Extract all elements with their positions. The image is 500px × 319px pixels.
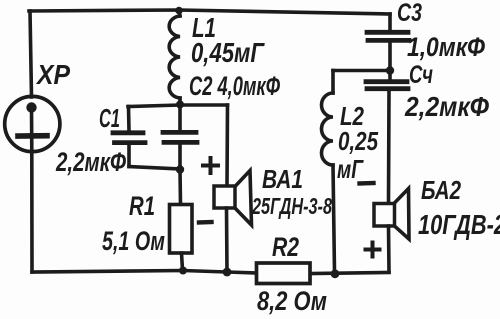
resistor R1 (170, 170, 193, 271)
speaker BA1 (214, 105, 252, 272)
wire node B rail (129, 167, 180, 170)
wire left vertical from top bus to XP (30, 11, 32, 97)
minus sign BA1 (199, 220, 212, 225)
wire bottom bus right segment (310, 273, 389, 274)
speaker BA2 (374, 189, 409, 273)
connector XP (5, 96, 60, 151)
capacitor C3 (367, 14, 409, 80)
svg-text:25ГДН-3-8: 25ГДН-3-8 (251, 193, 332, 219)
svg-text:0,25: 0,25 (338, 126, 378, 156)
inductor L2 (322, 71, 335, 273)
junction top of L1 (175, 7, 183, 15)
capacitor C4 (366, 82, 408, 203)
svg-text:0,45мГ: 0,45мГ (191, 37, 265, 68)
svg-text:5,1 Ом: 5,1 Ом (102, 226, 165, 256)
resistor R2 (257, 263, 311, 284)
wire top bus (29, 10, 390, 14)
capacitor C2 (163, 105, 197, 169)
svg-text:ВА1: ВА1 (262, 164, 303, 194)
plus sign BA1 (203, 158, 218, 173)
svg-text:Сч: Сч (409, 61, 433, 89)
wire XP to bottom bus (30, 152, 34, 273)
svg-text:2,2мкФ: 2,2мкФ (55, 147, 126, 177)
junction node A (176, 101, 184, 109)
wire node A rail (128, 105, 228, 107)
svg-text:R2: R2 (272, 232, 299, 262)
svg-text:10ГДВ-2: 10ГДВ-2 (418, 209, 500, 240)
svg-text:R1: R1 (129, 191, 155, 221)
junction node B (176, 165, 184, 173)
svg-text:С2 4,0мкФ: С2 4,0мкФ (189, 71, 280, 101)
svg-text:мГ: мГ (337, 154, 364, 184)
svg-text:ХР: ХР (35, 59, 70, 90)
svg-text:БА2: БА2 (421, 175, 461, 205)
inductor L1 (169, 11, 180, 105)
capacitor C1 (113, 107, 145, 167)
svg-text:8,2 Ом: 8,2 Ом (257, 286, 327, 316)
svg-text:С3: С3 (397, 0, 422, 27)
minus sign BA2 (360, 181, 374, 186)
svg-text:2,2мкФ: 2,2мкФ (404, 91, 489, 122)
svg-text:1,0мкФ: 1,0мкФ (407, 32, 485, 62)
wire bottom bus left segment (32, 271, 257, 274)
wire L2 branch horizontal (333, 69, 390, 73)
junction R1 bottom (179, 267, 187, 275)
junction C3/C4/L2 node (386, 66, 394, 74)
junction BA1 bottom (223, 268, 232, 277)
junction L2 bottom (331, 269, 340, 278)
plus sign BA2 (366, 243, 380, 257)
svg-text:С1: С1 (99, 103, 120, 133)
